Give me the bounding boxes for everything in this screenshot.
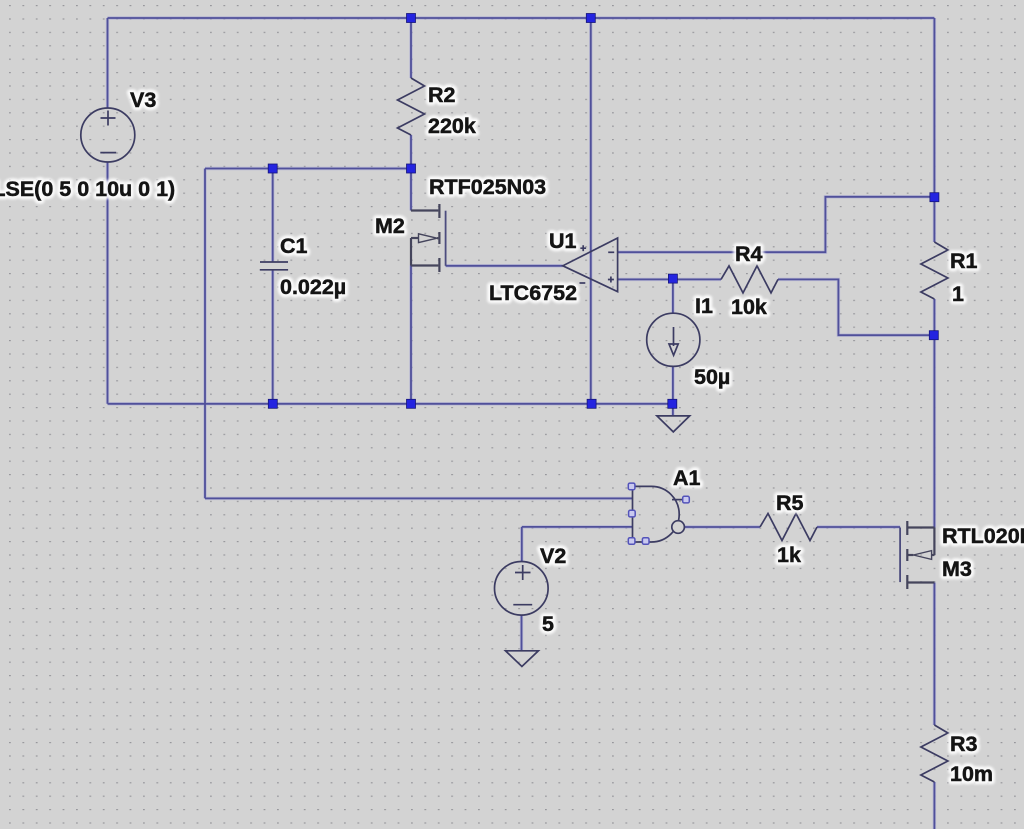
svg-text:U1: U1: [549, 229, 577, 253]
svg-text:R4: R4: [735, 242, 763, 266]
svg-text:R1: R1: [950, 249, 978, 273]
svg-text:A1: A1: [673, 466, 701, 490]
svg-text:220k: 220k: [428, 114, 476, 138]
svg-text:C1: C1: [280, 234, 308, 258]
svg-text:M2: M2: [375, 214, 405, 238]
svg-text:I1: I1: [695, 294, 713, 318]
svg-text:R2: R2: [428, 83, 456, 107]
svg-text:V3: V3: [130, 88, 156, 112]
svg-text:0.022µ: 0.022µ: [280, 275, 346, 299]
svg-text:M3: M3: [942, 557, 972, 581]
svg-text:PULSE(0 5 0 10u 0 1): PULSE(0 5 0 10u 0 1): [0, 177, 175, 201]
svg-text:10m: 10m: [950, 762, 993, 786]
svg-text:RTL020P5: RTL020P5: [942, 524, 1024, 548]
svg-text:5: 5: [542, 612, 554, 636]
svg-text:R5: R5: [776, 491, 804, 515]
svg-text:50µ: 50µ: [694, 365, 730, 389]
svg-text:RTF025N03: RTF025N03: [429, 175, 546, 199]
svg-text:1: 1: [952, 282, 964, 306]
svg-text:10k: 10k: [731, 295, 767, 319]
svg-text:V2: V2: [540, 544, 566, 568]
svg-text:LTC6752: LTC6752: [489, 281, 577, 305]
svg-text:R3: R3: [950, 732, 978, 756]
svg-text:1k: 1k: [777, 543, 801, 567]
